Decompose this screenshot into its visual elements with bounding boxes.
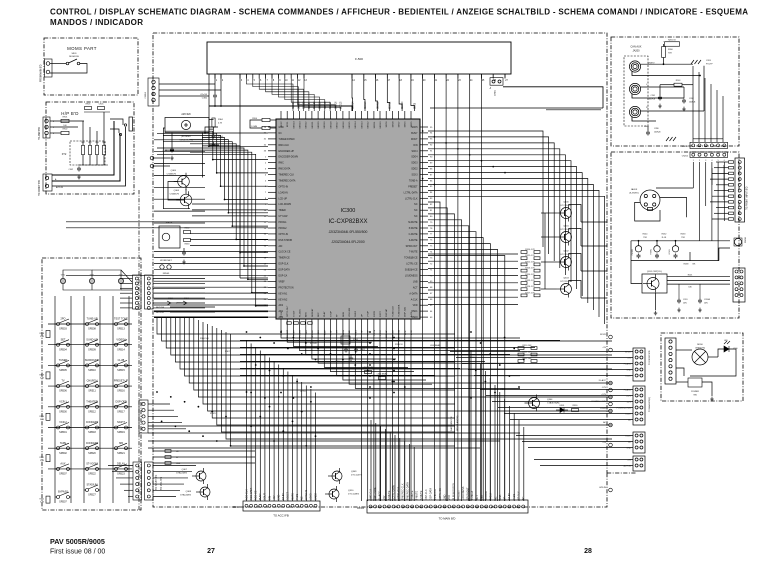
connector CN251	[690, 142, 728, 148]
switch STADIUM	[84, 485, 100, 492]
svg-text:POWER: POWER	[691, 391, 699, 393]
svg-text:MB: MB	[119, 442, 123, 445]
svg-text:IC300: IC300	[341, 208, 356, 214]
connector CN304	[367, 500, 528, 513]
wire bus row2	[631, 260, 719, 262]
key top components	[60, 275, 124, 284]
svg-text:DTC114YS: DTC114YS	[561, 229, 572, 231]
connector CN252	[690, 152, 728, 158]
svg-text:SEG20: SEG20	[318, 121, 320, 129]
transistor Q201 box	[642, 274, 667, 293]
svg-text:THEATER: THEATER	[86, 400, 98, 403]
svg-text:Q305: Q305	[171, 170, 177, 172]
svg-text:SR523: SR523	[117, 473, 125, 476]
ground slashes top	[691, 60, 701, 64]
connector CN351 strip B	[145, 275, 154, 309]
svg-text:(IR REMO: (IR REMO	[181, 136, 191, 138]
svg-text:DIN: DIN	[268, 496, 271, 500]
svg-text:BUSY: BUSY	[411, 133, 418, 135]
svg-text:3: 3	[705, 160, 706, 162]
svg-text:AUX: AUX	[60, 463, 65, 466]
svg-text:VOLUME: VOLUME	[349, 307, 351, 317]
transistor Q309	[328, 468, 342, 484]
connector CN303	[243, 501, 320, 511]
svg-text:CONCERT: CONCERT	[86, 421, 99, 424]
svg-text:R310 4.7K: R310 4.7K	[525, 249, 535, 251]
svg-text:JA200: JA200	[632, 50, 640, 53]
svg-text:ACC-CE: ACC-CE	[255, 490, 258, 500]
svg-text:KEY-IN1: KEY-IN1	[279, 293, 288, 295]
capacitor row C310-C313	[287, 322, 313, 325]
svg-text:SCK3: SCK3	[411, 175, 418, 177]
svg-text:SPKR-OUT: SPKR-OUT	[467, 487, 470, 500]
svg-text:CTA367S: CTA367S	[167, 173, 177, 176]
svg-text:Q300: Q300	[563, 202, 569, 204]
svg-text:SEG9: SEG9	[386, 121, 388, 128]
wire to CN270 mid	[719, 248, 730, 261]
svg-text:M200: M200	[697, 344, 703, 346]
svg-text:T-MUTE: T-MUTE	[416, 491, 419, 500]
svg-text:SEG17: SEG17	[337, 121, 339, 129]
svg-text:MOMS PART: MOMS PART	[67, 46, 97, 51]
svg-text:MOM-SW: MOM-SW	[69, 56, 80, 58]
wire bundle IC right to upper-right verticals	[428, 131, 605, 324]
connector CN261	[633, 386, 645, 425]
svg-text:R521: R521	[39, 457, 44, 459]
right lower dash-dot box	[661, 333, 743, 401]
resistor R364	[212, 118, 215, 127]
motor M200	[692, 349, 708, 365]
svg-text:75R: 75R	[643, 237, 647, 239]
wires key box bottom strip	[108, 466, 133, 497]
svg-text:AD2: AD2	[279, 304, 284, 307]
svg-text:A-CLK: A-CLK	[490, 492, 493, 500]
wires transistors to right edge	[581, 222, 607, 298]
svg-text:SEG15: SEG15	[349, 121, 351, 129]
svg-text:Q309: Q309	[351, 471, 357, 473]
svg-text:+5V: +5V	[383, 495, 386, 500]
svg-text:RMC: RMC	[279, 163, 285, 165]
svg-text:2x: 2x	[490, 87, 492, 89]
DIN connector JA201	[640, 190, 660, 210]
svg-text:LOAD: LOAD	[310, 493, 313, 500]
svg-text:LOUDNESS: LOUDNESS	[405, 276, 418, 278]
svg-text:SR510: SR510	[88, 369, 96, 372]
svg-text:DSP-DATA: DSP-DATA	[429, 488, 432, 500]
svg-text:VOL: VOL	[119, 275, 124, 277]
svg-text:TONE-A: TONE-A	[471, 490, 474, 500]
capacitor C210	[677, 299, 681, 304]
svg-text:VCR-1: VCR-1	[59, 400, 67, 403]
svg-text:CN251: CN251	[682, 146, 689, 148]
svg-text:TUNE-DATA: TUNE-DATA	[398, 329, 401, 341]
svg-text:R306 10K: R306 10K	[200, 338, 210, 340]
svg-text:VTOP: VTOP	[368, 311, 370, 317]
display GND connector	[490, 78, 503, 86]
capacitor C211	[698, 299, 702, 304]
key bias resistors	[39, 331, 50, 504]
svg-text:DTC114YS: DTC114YS	[561, 281, 572, 283]
svg-text:DAC-REMOTE: DAC-REMOTE	[450, 416, 453, 431]
CN304 risers right part	[471, 350, 524, 501]
svg-text:POWER-DOWN: POWER-DOWN	[616, 407, 631, 409]
svg-text:SR502: SR502	[59, 452, 67, 455]
resonator X300	[341, 336, 350, 344]
RCA jack R	[629, 106, 640, 117]
diode D301	[556, 408, 568, 413]
svg-text:SR506: SR506	[59, 390, 67, 393]
svg-text:Q310: Q310	[348, 490, 354, 492]
svg-text:ALTF-IN: ALTF-IN	[56, 186, 64, 189]
IC300 left pins	[268, 127, 276, 317]
svg-text:DOUT: DOUT	[411, 139, 418, 141]
svg-text:OPTO: OPTO	[300, 391, 306, 393]
svg-text:R320 10K: R320 10K	[523, 345, 533, 347]
svg-text:C350: C350	[202, 98, 208, 100]
wire display gnd bus	[503, 87, 603, 108]
resistor R200 vertical	[662, 47, 666, 58]
resistor R902	[61, 131, 69, 134]
svg-text:C286: C286	[654, 128, 659, 130]
ground slashes C286	[666, 137, 676, 141]
svg-text:SR521: SR521	[117, 452, 125, 455]
svg-text:DOUT: DOUT	[264, 493, 267, 500]
svg-text:CN252: CN252	[682, 156, 689, 158]
svg-text:X300: X300	[353, 339, 359, 341]
svg-text:DSP-OFF: DSP-OFF	[116, 400, 127, 403]
wires below CN252	[656, 162, 724, 261]
labels below IC bottom pins	[281, 329, 413, 341]
svg-text:(GND): (GND)	[495, 90, 497, 96]
wire jack L	[641, 86, 684, 88]
svg-text:Q302: Q302	[563, 251, 569, 253]
svg-text:TAPE: TAPE	[60, 442, 67, 445]
svg-text:OPTO-IN: OPTO-IN	[305, 490, 308, 500]
wires CN352 to right	[159, 83, 215, 85]
svg-text:CAN AUX: CAN AUX	[631, 46, 642, 49]
svg-text:LCD-UP: LCD-UP	[279, 198, 288, 200]
svg-text:SR512: SR512	[88, 410, 96, 413]
fluorescent display V-500	[207, 42, 511, 74]
svg-text:CN352: CN352	[145, 91, 147, 98]
svg-text:GND: GND	[278, 494, 281, 500]
svg-text:+5V: +5V	[273, 495, 276, 500]
resistor R350	[262, 118, 270, 121]
svg-text:NC: NC	[414, 210, 418, 212]
svg-text:FL-ACC: FL-ACC	[624, 362, 632, 365]
svg-text:SEG18: SEG18	[330, 121, 332, 129]
svg-text:LNB: LNB	[480, 495, 483, 500]
svg-text:FL-ACC: FL-ACC	[298, 309, 301, 317]
dark bus lines	[154, 311, 268, 313]
svg-text:SEG22: SEG22	[306, 121, 308, 129]
CN303 riser verticals	[247, 340, 316, 501]
svg-text:GND2: GND2	[314, 493, 317, 500]
MOMS connector CN901	[45, 59, 53, 77]
svg-text:OPTO-OUT: OPTO-OUT	[287, 305, 289, 317]
svg-text:GND2: GND2	[355, 310, 357, 317]
svg-text:DTC114ES: DTC114ES	[348, 494, 359, 496]
svg-text:R313 1K: R313 1K	[395, 344, 403, 346]
svg-text:RMC-DATA: RMC-DATA	[374, 487, 377, 500]
svg-text:FL-ACC: FL-ACC	[599, 379, 607, 382]
svg-text:P-ON: P-ON	[281, 311, 283, 317]
svg-text:NC: NC	[494, 496, 497, 500]
svg-text:SR516: SR516	[117, 390, 125, 393]
svg-text:CN304: CN304	[357, 508, 365, 510]
svg-text:L302 BEAD: L302 BEAD	[430, 344, 441, 347]
svg-text:DEFEAT: DEFEAT	[311, 329, 314, 338]
svg-text:A-CLK: A-CLK	[411, 298, 418, 301]
svg-text:TIMEREC-DATA: TIMEREC-DATA	[279, 179, 296, 182]
svg-text:BYPASS: BYPASS	[58, 491, 68, 494]
svg-text:OPTO-IN: OPTO-IN	[279, 234, 289, 236]
svg-text:SP-BY: SP-BY	[600, 334, 607, 336]
svg-text:DSP-STROB: DSP-STROB	[279, 240, 293, 242]
svg-text:S-MUTE: S-MUTE	[409, 240, 418, 242]
svg-text:PRESET: PRESET	[408, 186, 418, 188]
svg-text:2: 2	[699, 160, 700, 162]
svg-text:STOP: STOP	[330, 311, 332, 317]
svg-text:SR503: SR503	[59, 328, 67, 331]
terminal circles right edge	[591, 334, 612, 492]
svg-text:VIDEO4: VIDEO4	[116, 338, 126, 341]
svg-text:TIMEREC-CLK: TIMEREC-CLK	[279, 175, 295, 177]
svg-text:SET: SET	[61, 338, 66, 341]
svg-text:NC: NC	[279, 133, 283, 135]
CN304 riser labels	[369, 482, 525, 500]
right outer dash-dot box upper	[611, 37, 739, 146]
CN252 pin numbers	[693, 160, 725, 162]
left horizontal bundle to IC lower pins	[66, 140, 268, 317]
svg-text:C902: C902	[68, 169, 73, 171]
svg-text:A-CE: A-CE	[410, 329, 413, 335]
connector CN353	[139, 400, 148, 433]
svg-text:SR511: SR511	[88, 390, 96, 393]
wires to CN251 verticals	[693, 66, 723, 142]
svg-text:PAV 5005R/9005: PAV 5005R/9005	[50, 537, 105, 546]
key matrix column wires	[55, 296, 129, 503]
svg-text:CFA75(YS): CFA75(YS)	[695, 347, 705, 350]
wire staircase display to IC top	[246, 74, 340, 111]
connector CN262	[633, 432, 645, 453]
wires transistor bases	[541, 213, 557, 289]
svg-text:PRESET-UP: PRESET-UP	[114, 380, 129, 383]
svg-text:R317 4.7K: R317 4.7K	[525, 292, 535, 294]
FM antenna jack	[734, 238, 741, 245]
svg-text:TONE-CE: TONE-CE	[434, 489, 437, 500]
resistor R330	[572, 409, 579, 412]
svg-text:MANDOS / INDICADOR: MANDOS / INDICADOR	[50, 18, 143, 27]
bead L300	[365, 371, 372, 374]
connector CN280	[665, 338, 676, 384]
svg-text:ENCODER-UP: ENCODER-UP	[279, 151, 295, 153]
svg-text:SEG23: SEG23	[299, 121, 301, 129]
FT2 dashed sub-box	[70, 141, 105, 165]
display pin ticks	[215, 74, 505, 79]
svg-text:SEG8: SEG8	[392, 121, 394, 128]
svg-text:SR509: SR509	[88, 348, 96, 351]
svg-text:SEG14: SEG14	[355, 121, 357, 129]
inner dash-dot vertical	[138, 190, 140, 510]
svg-text:ST-BY: ST-BY	[293, 310, 295, 317]
wire IC right to resistor column	[428, 254, 518, 304]
svg-text:RMC-CLK: RMC-CLK	[279, 145, 290, 147]
svg-text:4.7K: 4.7K	[218, 123, 223, 125]
svg-text:LCD-DOWN: LCD-DOWN	[279, 204, 292, 206]
svg-text:75R: 75R	[668, 53, 672, 55]
svg-text:100P-B: 100P-B	[649, 99, 656, 101]
svg-text:DSP-CLK: DSP-CLK	[425, 489, 428, 500]
svg-text:SR520: SR520	[88, 452, 96, 455]
svg-text:C-MUTE: C-MUTE	[409, 234, 418, 236]
svg-text:FIP27: FIP27	[380, 310, 382, 317]
wire bus row1	[631, 240, 730, 242]
svg-text:GND: GND	[627, 447, 632, 449]
svg-text:(S-VIDEO): (S-VIDEO)	[629, 193, 639, 195]
svg-text:SR518: SR518	[88, 431, 96, 434]
svg-text:ST-BY: ST-BY	[210, 413, 216, 415]
svg-text:LNB: LNB	[413, 281, 418, 283]
svg-text:RESET: RESET	[287, 491, 290, 500]
wire transistor loop	[168, 182, 180, 201]
svg-text:SP-RLY: SP-RLY	[517, 491, 520, 500]
svg-text:R520: R520	[39, 416, 44, 418]
svg-text:SR501: SR501	[59, 431, 67, 434]
svg-text:LCTRL-CLK: LCTRL-CLK	[405, 198, 418, 200]
svg-text:ST-BY: ST-BY	[625, 435, 631, 437]
RCA jack L	[629, 83, 640, 94]
svg-text:SUND-UP: SUND-UP	[86, 338, 98, 341]
svg-text:KEY1: KEY1	[287, 121, 289, 127]
svg-text:LCTRL-DATA: LCTRL-DATA	[404, 191, 418, 194]
H/P board dashed box	[46, 102, 134, 194]
svg-text:ST-BY: ST-BY	[625, 375, 631, 377]
svg-text:FIP28: FIP28	[374, 310, 376, 317]
svg-text:SUB-WOOFER: SUB-WOOFER	[453, 483, 456, 500]
resistor R901	[61, 119, 69, 122]
svg-text:ACC-CLK: ACC-CLK	[245, 489, 248, 500]
svg-text:LCTRL-CE: LCTRL-CE	[406, 264, 418, 266]
svg-text:DTC114YS: DTC114YS	[561, 254, 572, 256]
svg-text:R-JK: R-JK	[662, 237, 667, 239]
transistor Q308	[196, 484, 210, 500]
wire display pin1 to C350	[214, 74, 216, 94]
svg-text:NIGHT: NIGHT	[117, 421, 125, 424]
svg-text:R312 4.7K: R312 4.7K	[525, 261, 535, 263]
IC300 CPU IC-CXP82BXX	[276, 119, 420, 319]
wires CN353 right	[148, 404, 255, 497]
wires display pins 14-19 to IC top	[352, 74, 415, 111]
capacitor C362	[182, 251, 186, 256]
svg-text:OPTO-IN: OPTO-IN	[279, 186, 289, 188]
svg-text:ST-BY: ST-BY	[508, 493, 511, 500]
svg-text:SUB2&4-CE: SUB2&4-CE	[405, 270, 418, 272]
svg-text:-12V: -12V	[602, 387, 607, 389]
transistor Q302	[557, 254, 572, 271]
resistor array R320-R322	[518, 345, 537, 362]
wire mesh left elbows	[157, 318, 612, 446]
svg-text:SEG19: SEG19	[324, 121, 326, 129]
HP caps	[77, 167, 81, 172]
svg-text:TO MAIN B'D(2): TO MAIN B'D(2)	[648, 397, 651, 412]
svg-text:VCR-2: VCR-2	[59, 421, 67, 424]
transistor Q305	[174, 173, 190, 191]
svg-text:SEG24: SEG24	[293, 121, 295, 129]
svg-text:SR504: SR504	[59, 348, 67, 351]
svg-text:SEG10: SEG10	[380, 121, 382, 129]
MOMS PART dashed box	[44, 38, 138, 95]
svg-text:TUNE-CLK: TUNE-CLK	[392, 306, 394, 317]
wire bus to IC top	[209, 106, 352, 111]
LED L200	[724, 341, 730, 352]
svg-text:S901: S901	[71, 53, 77, 55]
sensor wire loop	[163, 128, 190, 209]
connector CN260	[633, 348, 645, 381]
svg-text:R205 1K: R205 1K	[668, 40, 676, 42]
svg-text:VP: VP	[504, 496, 507, 500]
svg-text:SR517: SR517	[117, 410, 125, 413]
svg-text:PRESET: PRESET	[457, 490, 460, 500]
svg-text:SP-RELAY(ON): SP-RELAY(ON)	[456, 415, 459, 431]
svg-text:SP-BY: SP-BY	[625, 351, 632, 353]
svg-text:SEG12: SEG12	[368, 121, 370, 129]
svg-text:AMS: AMS	[305, 312, 308, 317]
svg-text:GND: GND	[443, 494, 446, 500]
svg-text:R519: R519	[39, 374, 44, 376]
display pin numbers	[216, 80, 509, 82]
Q201 leads	[655, 293, 657, 310]
CN303 riser labels	[245, 488, 317, 500]
svg-text:M-MUTE: M-MUTE	[408, 222, 418, 224]
svg-text:PROG2: PROG2	[279, 228, 288, 230]
svg-text:CHURCH: CHURCH	[87, 380, 98, 383]
svg-text:ACT: ACT	[476, 495, 479, 500]
key board dashed box	[42, 258, 141, 510]
svg-text:DSP-CLK: DSP-CLK	[279, 264, 289, 266]
wire jack video	[641, 63, 693, 65]
svg-text:TIMEREC-DATA: TIMEREC-DATA	[406, 482, 409, 500]
svg-text:TO FRONT INPUT B'D: TO FRONT INPUT B'D	[747, 186, 749, 210]
svg-text:SR508: SR508	[88, 328, 96, 331]
svg-text:Q301: Q301	[563, 226, 569, 228]
CN260 labels	[616, 351, 631, 467]
svg-text:100P-B: 100P-B	[689, 102, 696, 104]
svg-text:SDO2: SDO2	[411, 169, 418, 171]
wires mesh to right connector strips	[450, 352, 633, 466]
svg-text:VDD: VDD	[413, 305, 418, 307]
capacitor C202	[682, 99, 686, 104]
svg-text:KEY2: KEY2	[281, 121, 283, 127]
svg-text:CTA367S(R): CTA367S(R)	[547, 402, 560, 405]
resistor cluster bottom left	[165, 450, 181, 465]
svg-text:FROM: FROM	[745, 237, 747, 243]
svg-text:PROG1: PROG1	[279, 222, 288, 224]
svg-text:Q201 CM2(Y1L): Q201 CM2(Y1L)	[647, 271, 662, 273]
svg-text:+12V: +12V	[601, 394, 606, 396]
svg-text:FR505: FR505	[163, 273, 170, 275]
svg-text:SR507: SR507	[59, 473, 67, 476]
connector 2pin	[150, 156, 154, 160]
svg-text:TO MAIN B'D: TO MAIN B'D	[439, 517, 456, 521]
svg-text:ACT: ACT	[413, 286, 418, 289]
resistor R363	[184, 239, 191, 242]
svg-text:KEY-IN: KEY-IN	[310, 343, 317, 345]
svg-text:LCTRL-CLK: LCTRL-CLK	[397, 486, 400, 500]
svg-text:TO VOL B'D: TO VOL B'D	[160, 477, 163, 490]
wires display pins 20-27 down to CN304	[423, 74, 505, 501]
svg-text:LCTRL-CE: LCTRL-CE	[439, 488, 442, 500]
